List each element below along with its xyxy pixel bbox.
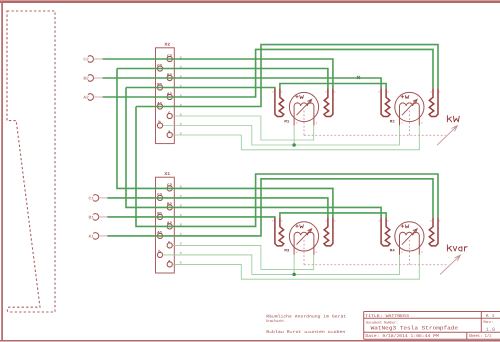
svg-text:X1: X1 <box>164 172 170 177</box>
current coil M4 left <box>381 218 390 246</box>
svg-text:o: o <box>334 90 336 93</box>
wire net C1b: input C1 to M3 right coil <box>107 198 328 218</box>
svg-text:WatNeg3 Tesla Strompfade: WatNeg3 Tesla Strompfade <box>371 325 458 331</box>
svg-text:A2: A2 <box>83 96 88 101</box>
pad A2 of X1 <box>167 224 172 229</box>
svg-text:B2: B2 <box>83 77 88 82</box>
svg-text:1.0: 1.0 <box>486 327 495 333</box>
svg-text:o: o <box>281 90 283 93</box>
label +W inside M4 <box>401 225 409 228</box>
pad c of X1 <box>167 243 172 248</box>
svg-text:u: u <box>401 251 403 254</box>
svg-text:C2: C2 <box>167 54 172 58</box>
wire net A1: vertical down, X1 row, over rail to M4 right coil <box>136 107 438 227</box>
svg-text:o: o <box>387 90 389 93</box>
mechanical coupling shaft bottom (kvar register) <box>304 240 448 265</box>
label kvar <box>447 245 467 251</box>
meter element M4 deflection arrow <box>402 229 417 245</box>
svg-text:u: u <box>296 121 298 124</box>
svg-text:o: o <box>334 220 336 223</box>
svg-text:o: o <box>439 220 441 223</box>
svg-text:B2: B2 <box>167 203 172 207</box>
rotation direction arrow kvar <box>440 255 460 275</box>
wire crossing X mark on net B2 <box>357 76 360 79</box>
pad b of X2 <box>157 123 162 128</box>
pad a of X2 <box>167 132 172 137</box>
wire net a2: X1 pin a to M4 right leg <box>172 255 419 279</box>
current coil M1 left <box>275 88 284 116</box>
wire net C2: input C2 to M1 right coil <box>103 59 333 88</box>
svg-text:M3: M3 <box>284 249 289 253</box>
svg-text:c: c <box>168 240 170 244</box>
current coil M3 right <box>324 218 333 246</box>
svg-text:c: c <box>168 111 170 115</box>
svg-text:B1: B1 <box>89 215 94 220</box>
svg-text:o: o <box>316 121 318 124</box>
svg-text:Rev:: Rev: <box>483 320 493 324</box>
wire net b branch to M1 left leg <box>293 125 295 145</box>
svg-text:X2: X2 <box>164 43 170 48</box>
mechanical coupling shaft top (kW register) <box>304 111 446 136</box>
current coil M4 right <box>429 218 438 246</box>
wire net B1: vertical down to X1 row and M4 left coil <box>126 88 381 218</box>
svg-text:A2: A2 <box>167 222 172 226</box>
svg-text:Draufsicht.: Draufsicht. <box>266 319 286 323</box>
terminal C2 input <box>88 56 103 63</box>
meter element M3 body <box>289 222 318 251</box>
label +W inside M2 <box>401 95 409 98</box>
svg-text:Date: 9/18/2014 1:06:44 PM: Date: 9/18/2014 1:06:44 PM <box>365 334 438 339</box>
svg-text:C1: C1 <box>157 193 162 197</box>
svg-text:b: b <box>158 120 160 125</box>
svg-text:A1: A1 <box>89 234 94 239</box>
svg-text:o: o <box>439 90 441 93</box>
frame border left <box>1 1 3 342</box>
wire net b2 branch to M3 left leg <box>293 255 295 275</box>
label kW <box>447 116 459 122</box>
wire net A1: M2 right coil over top rail to vertical <box>136 45 438 107</box>
svg-text:4: 4 <box>492 314 495 319</box>
wire net A2: input A2 over top rail to M2 right coil <box>103 49 433 97</box>
svg-text:o: o <box>272 220 274 223</box>
wire net B1b: input B1 to M3 left coil <box>107 216 275 219</box>
svg-text:M4: M4 <box>390 249 395 253</box>
svg-text:C2: C2 <box>83 58 88 63</box>
svg-text:o: o <box>325 220 327 223</box>
svg-text:C2: C2 <box>167 184 172 188</box>
terminal A2 input <box>88 94 103 101</box>
svg-text:o: o <box>421 121 423 124</box>
wire net link M3-M4 current coils <box>280 213 386 218</box>
meter element M2 voltage coil <box>400 103 420 126</box>
wire net c2: X1 pin c to M3 right leg <box>172 245 313 269</box>
junction dot <box>292 143 296 147</box>
wire net B2: input B2 to M2 left coil <box>103 78 382 88</box>
svg-text:B1: B1 <box>157 83 162 87</box>
terminal B1 input <box>93 214 107 221</box>
pad B1 of X1 <box>157 214 162 219</box>
pad b of X1 <box>157 252 162 257</box>
current coil M2 left <box>381 88 390 116</box>
svg-text:B1: B1 <box>157 212 162 216</box>
pad A1 of X1 <box>157 233 162 238</box>
junction dot <box>292 273 296 277</box>
svg-text:o: o <box>378 90 380 93</box>
terminal A1 input <box>93 233 107 240</box>
svg-text:o: o <box>421 251 423 254</box>
meter element M2 deflection arrow <box>402 99 417 115</box>
svg-text:A2: A2 <box>167 92 172 96</box>
svg-text:o: o <box>325 90 327 93</box>
meter element M3 voltage coil <box>294 232 314 255</box>
svg-text:o: o <box>430 90 432 93</box>
svg-text:A: A <box>486 314 489 319</box>
svg-text:o: o <box>378 220 380 223</box>
frame border top <box>0 0 500 3</box>
wire net C1: vertical down to X1 row and M3 right coil <box>117 69 333 218</box>
svg-text:Räumliche Anordnung im Gerät: Räumliche Anordnung im Gerät <box>266 314 346 319</box>
label +W inside M1 <box>296 95 304 98</box>
pad B1 of X2 <box>157 85 162 90</box>
svg-text:a: a <box>168 259 170 263</box>
wire net C1: M1 right coil to vertical <box>117 69 328 89</box>
pad C1 of X1 <box>157 195 162 200</box>
pad a of X1 <box>167 262 172 267</box>
svg-text:A1: A1 <box>157 231 162 235</box>
svg-text:A1: A1 <box>157 102 162 106</box>
svg-text:M1: M1 <box>284 120 289 124</box>
wire net b2: X1 pin b to M4 left leg <box>163 255 400 275</box>
pad B2 of X1 <box>167 205 172 210</box>
meter element M3 deflection arrow <box>297 229 312 245</box>
connector X1 body <box>156 177 175 273</box>
current coil M1 right <box>324 88 333 116</box>
svg-text:a: a <box>168 130 170 134</box>
svg-text:u: u <box>296 251 298 254</box>
svg-text:u: u <box>401 121 403 124</box>
svg-text:Document Number:: Document Number: <box>366 321 398 325</box>
pad C2 of X2 <box>167 56 172 61</box>
meter element M1 voltage coil <box>294 103 314 126</box>
svg-text:C1: C1 <box>157 64 162 68</box>
svg-text:Sheet: 1/2: Sheet: 1/2 <box>469 334 492 339</box>
svg-text:B=blau R=rot u=unten o=oben: B=blau R=rot u=unten o=oben <box>266 330 345 335</box>
svg-text:o: o <box>316 251 318 254</box>
wire net link M1-M2 current coils <box>280 84 386 89</box>
meter element M1 deflection arrow <box>297 99 312 115</box>
pad c of X2 <box>167 113 172 118</box>
svg-text:C1: C1 <box>89 196 94 201</box>
dashed enclosure outline (left panel) <box>7 11 55 312</box>
svg-text:b: b <box>158 249 160 254</box>
wire net b: X2 pin b to M2 left leg <box>163 125 400 145</box>
svg-text:o: o <box>387 220 389 223</box>
wire net A1b: input A1 over rail to M4 left coil <box>107 179 433 236</box>
label +W inside M3 <box>296 225 304 228</box>
svg-text:o: o <box>281 220 283 223</box>
pad C1 of X2 <box>157 66 162 71</box>
pad A1 of X2 <box>157 104 162 109</box>
meter element M2 body <box>395 92 424 121</box>
svg-text:M2: M2 <box>390 120 395 124</box>
wire net a: X2 pin a to M2 right leg <box>172 125 419 149</box>
pad A2 of X2 <box>167 94 172 99</box>
pad C2 of X1 <box>167 186 172 191</box>
meter element M4 voltage coil <box>400 232 420 255</box>
rotation direction arrow kW <box>437 126 457 146</box>
meter element M1 body <box>289 92 318 121</box>
pad B2 of X2 <box>167 75 172 80</box>
meter element M4 body <box>395 222 424 251</box>
svg-text:B2: B2 <box>167 73 172 77</box>
svg-text:TITLE: WATTNEG3: TITLE: WATTNEG3 <box>365 314 409 319</box>
svg-text:o: o <box>272 90 274 93</box>
current coil M2 right <box>429 88 438 116</box>
wire net B1: M1 left coil to vertical <box>126 87 275 90</box>
svg-text:o: o <box>430 220 432 223</box>
connector X2 body <box>156 48 175 144</box>
current coil M3 left <box>275 218 284 246</box>
frame border bottom <box>0 340 500 342</box>
terminal B2 input <box>88 75 103 82</box>
terminal C1 input <box>93 195 107 202</box>
wire net c: X2 pin c to M1 right leg <box>172 116 313 140</box>
title block frame <box>364 312 500 340</box>
